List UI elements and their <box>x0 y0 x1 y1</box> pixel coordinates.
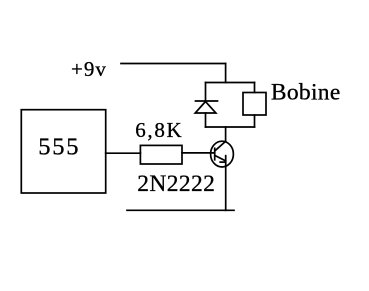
wire resistor to base <box>182 152 215 154</box>
wire bottom bar to collector <box>225 127 227 141</box>
transistor Q1 2N2222 <box>211 141 234 167</box>
wire +9V rail horizontal <box>121 63 226 65</box>
wire coil/diode top bar <box>206 82 255 84</box>
svg-text:555: 555 <box>38 134 80 161</box>
wire coil/diode bottom bar <box>206 126 255 128</box>
svg-text:6,8K: 6,8K <box>135 118 183 142</box>
op IC U1 555 box <box>21 110 105 193</box>
svg-text:+9v: +9v <box>71 57 107 81</box>
svg-text:2N2222: 2N2222 <box>137 171 215 197</box>
wire +9V rail drop to coil top <box>225 64 227 83</box>
diode D1 (flyback, cathode up) <box>195 83 217 128</box>
resistor R1 6,8K <box>140 145 182 164</box>
coil L1 (Bobine) <box>243 83 266 128</box>
wire ground rail <box>127 209 234 211</box>
wire 555 output to resistor <box>106 152 141 154</box>
wire emitter down <box>225 156 227 211</box>
svg-text:Bobine: Bobine <box>271 79 341 105</box>
